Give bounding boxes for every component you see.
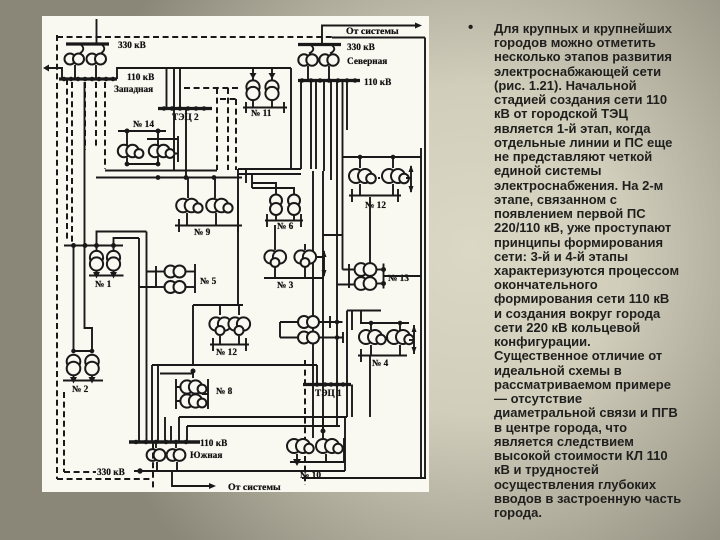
label N5	[200, 277, 217, 287]
svg-text:№ 3: № 3	[277, 281, 294, 291]
svg-text:№ 6: № 6	[277, 222, 294, 232]
dashed feeder cables from Zapadnaya	[67, 79, 105, 244]
label N11	[251, 109, 272, 119]
transformer N8 T2	[180, 394, 206, 407]
transformer N9 T2	[206, 178, 232, 225]
substation 12 upper feed wire	[342, 155, 421, 168]
label N1	[95, 280, 112, 290]
wire N10 feed	[313, 356, 370, 439]
arrow From system top-right	[322, 23, 422, 45]
substation 10 bus	[290, 438, 344, 466]
wire box to N5 and Yuzhnaya	[139, 232, 147, 443]
transformer N14 T2	[149, 131, 175, 164]
substation 8 side ties	[176, 379, 208, 409]
svg-text:№ 12: № 12	[216, 348, 237, 358]
Zapadnaya top stub wire	[96, 19, 98, 44]
label N8	[216, 387, 233, 397]
wire feeds to N6	[246, 169, 294, 194]
transformer Yuzhnaya T1	[147, 442, 166, 471]
feeder wires down from Severnaya bus	[301, 82, 347, 270]
svg-text:110 кВ: 110 кВ	[364, 78, 391, 88]
svg-text:№ 10: № 10	[300, 471, 321, 481]
transformer N11 T2	[265, 80, 278, 107]
transformer N14 T1	[118, 131, 144, 164]
label 330 kV bottom	[97, 468, 125, 478]
substation Yuzhnaya 110kV bus	[129, 440, 200, 444]
wire N13 to ring	[384, 275, 422, 277]
wire feeder line A	[105, 170, 217, 172]
transformer N4 T1	[359, 323, 386, 355]
substation TEC2 bus	[158, 107, 212, 111]
svg-text:Южная: Южная	[190, 451, 222, 461]
svg-text:110 кВ: 110 кВ	[127, 73, 154, 83]
transformer Zapadnaya T1	[65, 44, 85, 79]
svg-text:№ 1: № 1	[95, 280, 112, 290]
substation 5 left tick	[155, 266, 157, 288]
label N10	[300, 471, 321, 481]
substation 13 left tick	[337, 264, 355, 288]
transformer N12L T2	[228, 317, 250, 344]
svg-text:110 кВ: 110 кВ	[200, 439, 227, 449]
transformer N5 T2	[156, 281, 195, 293]
label N9	[194, 228, 211, 238]
svg-text:Северная: Северная	[347, 57, 387, 67]
vertical tie with arrows N3	[313, 250, 327, 278]
substation 11 feeder wires	[250, 68, 276, 80]
transformer N8 T1	[180, 380, 206, 393]
ring wires TEC1 to Yuzhnaya	[179, 417, 347, 442]
label N12 lower	[216, 348, 237, 358]
substation Severnaya 330kV bus	[298, 43, 341, 46]
dashed TEC1 330kV tie	[304, 360, 306, 485]
substation 5 tap wires	[139, 272, 156, 288]
svg-text:№ 2: № 2	[72, 385, 89, 395]
transformer N13 T2	[355, 277, 384, 290]
label From system top	[346, 26, 399, 37]
substation 12 lower bus	[210, 338, 249, 351]
transformer N9 T1	[176, 178, 202, 225]
label Yuzhnaya	[190, 451, 222, 461]
label 330 kV Severnaya	[347, 43, 375, 53]
substation 11 bus	[243, 102, 287, 113]
wire N14 tie right	[147, 136, 178, 162]
substation 2 bus	[63, 377, 103, 384]
dashed bottom border	[57, 478, 153, 480]
label N13	[388, 274, 409, 284]
wire N8 feed	[192, 371, 194, 378]
label From system bottom	[228, 482, 281, 493]
dashed cable crossing bottom border	[152, 443, 154, 490]
substation 9 lower bus	[175, 200, 242, 232]
svg-text:№ 4: № 4	[372, 359, 389, 369]
svg-text:Западная: Западная	[114, 85, 153, 95]
label 110 kV Yuzhnaya	[200, 439, 227, 449]
solid bottom frame wire	[302, 477, 426, 479]
substation 1 lower bus	[89, 272, 124, 279]
substation 4 lower bus	[358, 349, 407, 362]
long feeder wires down right-center	[313, 82, 343, 431]
label 110 kV Zapadnaya	[127, 73, 154, 83]
inner right ring wire	[420, 148, 422, 478]
dashed planned box around TEC2	[184, 88, 238, 170]
transformer N1 T2	[107, 246, 120, 276]
wire feeder to substation 2	[72, 82, 94, 353]
vertical tie with arrows N4	[409, 325, 417, 354]
wire TEC2 down feeders	[174, 110, 186, 178]
transformer N6 T2	[288, 195, 300, 221]
svg-text:От системы: От системы	[346, 26, 399, 37]
transformer N10 T2	[316, 439, 343, 462]
wire feeder line B and N9 top bus	[96, 176, 242, 180]
svg-text:330 кВ: 330 кВ	[347, 43, 375, 53]
label TEC1	[315, 389, 342, 399]
inner dashed corner bottom-left	[64, 392, 96, 472]
label 330 kV top-left	[118, 41, 146, 51]
solid right frame wire	[424, 38, 426, 479]
arrow From system bottom	[172, 471, 216, 489]
label N12 upper	[365, 201, 386, 211]
substation Severnaya 110kV bus	[298, 79, 360, 83]
transformer Severnaya T2	[319, 45, 338, 81]
Yuzhnaya 330kV wire	[134, 417, 345, 473]
substation 12 upper bus	[349, 189, 401, 202]
feeder wires into Yuzhnaya bus	[165, 417, 171, 442]
transformer N4 T2	[387, 323, 414, 355]
transformer N1 T1	[90, 246, 103, 276]
transformer N3 T2	[294, 244, 316, 278]
nested ring wires center	[238, 169, 301, 305]
transformer Zapadnaya T2	[87, 44, 107, 79]
svg-text:№ 5: № 5	[200, 277, 217, 287]
svg-text:№ 8: № 8	[216, 387, 233, 397]
substation 1 connection box wires	[97, 232, 147, 246]
label Severnaya	[347, 57, 387, 67]
transformer Yuzhnaya T2	[167, 442, 186, 471]
label 110 kV Severnaya	[364, 78, 391, 88]
bullet	[468, 19, 473, 36]
transformer N6 T1	[270, 195, 282, 221]
substation 5 right tick	[194, 264, 196, 293]
transformer N12u T1	[349, 169, 376, 195]
label N14	[133, 120, 154, 130]
wires TEC1 up	[351, 385, 353, 418]
svg-text:ТЭЦ 1: ТЭЦ 1	[315, 389, 342, 399]
body text	[494, 22, 720, 520]
transformer N5 T1	[156, 266, 195, 278]
wire Zapadnaya to north ring	[117, 68, 291, 169]
substation 12 lower feed wire	[193, 305, 243, 365]
label TEC2	[172, 113, 199, 123]
transformer N3 T1	[264, 225, 286, 278]
transformer N7 T1	[280, 316, 319, 338]
transformer N10 T1	[287, 439, 314, 462]
label N6	[277, 222, 294, 232]
label N3	[277, 281, 294, 291]
transformer N2 T2	[85, 355, 99, 380]
transformer N7 T2	[280, 332, 319, 344]
svg-text:№ 11: № 11	[251, 109, 272, 119]
wire N12u down to N13	[369, 197, 371, 263]
transformer Severnaya T1	[298, 45, 317, 81]
substation 3 bus	[264, 277, 313, 279]
substation TEC1 bus	[303, 383, 351, 387]
transformer N11 T1	[246, 80, 259, 107]
east-west 110kV trunk wires	[152, 365, 317, 442]
label Zapadnaya	[114, 85, 153, 95]
label N2	[72, 385, 89, 395]
substation 14 top bus	[118, 129, 166, 133]
white scanned-figure panel	[42, 16, 429, 492]
svg-text:330 кВ: 330 кВ	[118, 41, 146, 51]
label N4	[372, 359, 389, 369]
substation 1 bus	[64, 244, 123, 248]
vertical tie with arrows N12u	[378, 165, 414, 193]
substation 13 right tick	[382, 264, 386, 289]
transformer N12L T1	[209, 317, 231, 344]
transformer N2 T1	[67, 355, 81, 380]
svg-text:330 кВ: 330 кВ	[97, 468, 125, 478]
svg-text:От системы: От системы	[228, 482, 281, 493]
330kV ring dashed top border	[57, 36, 332, 38]
arrow to external system left	[43, 65, 62, 80]
wire TEC2 up to ring	[167, 68, 181, 109]
substation Zapadnaya 330kV bus	[66, 42, 109, 45]
svg-text:№ 9: № 9	[194, 228, 211, 238]
330kV ring dashed left border	[56, 35, 58, 479]
svg-text:№ 12: № 12	[365, 201, 386, 211]
substation 4 upper bus	[347, 311, 409, 418]
substation 6 bus	[265, 214, 303, 227]
wire N14 bottom jumper	[125, 162, 160, 166]
transformer N13 T1	[355, 263, 384, 276]
svg-text:№ 14: № 14	[133, 120, 154, 130]
substation Zapadnaya 110kV bus	[59, 77, 117, 81]
solid top-right frame wire	[332, 37, 425, 39]
transformer N12u T2	[382, 169, 409, 195]
N7 side tie wires	[319, 316, 343, 343]
